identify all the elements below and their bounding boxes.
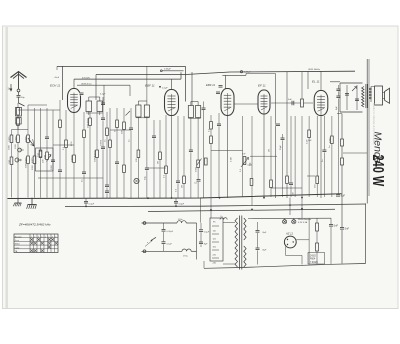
label component values [9, 106, 338, 196]
capacitor mains filter c [199, 223, 210, 247]
wire bottom power line [204, 261, 366, 268]
svg-text:5nF: 5nF [345, 227, 350, 231]
wire right column x331.9 [329, 116, 333, 197]
capacitor x278 [276, 124, 281, 127]
IF transformer T2 box b [144, 105, 149, 117]
wire mid column x166 [165, 115, 168, 198]
transformer output primary [362, 87, 364, 108]
wire left column x28 [25, 105, 29, 198]
capacitor mains filter d [199, 242, 208, 246]
svg-text:F604: F604 [310, 259, 316, 261]
choke mains top [177, 221, 197, 223]
wire shield box right [185, 66, 187, 101]
switch antenna band [19, 103, 25, 106]
svg-text:0,01µF: 0,01µF [167, 231, 174, 233]
capacitor antenna 50pF [17, 92, 26, 103]
svg-text:Bereich: Bereich [15, 236, 22, 238]
wire page fold line [6, 27, 7, 308]
wire selector stub [200, 198, 202, 223]
svg-text:20000: 20000 [71, 155, 74, 162]
label Mende logo [372, 132, 384, 164]
wire left column x74 [71, 113, 75, 198]
wire rectifier drop [290, 198, 309, 265]
wire right column x295.1 [294, 116, 296, 197]
svg-text:1: 1 [45, 236, 46, 238]
capacitor 8uF a [255, 222, 267, 265]
wire mid column x154 [152, 120, 157, 198]
transformer mains primary [235, 218, 238, 267]
IF transformer T3 box b [196, 106, 201, 118]
capacitor x342 c [340, 227, 350, 231]
wire V2 anode drop [171, 116, 173, 199]
wire right column x252 [251, 116, 253, 206]
label line b [81, 82, 93, 85]
resistor heater a [316, 223, 319, 231]
capacitor mains filter a [161, 223, 174, 251]
svg-text:8µF: 8µF [263, 250, 267, 252]
svg-text:3000: 3000 [25, 157, 28, 163]
svg-text:ECH: ECH [71, 141, 73, 146]
switch diagonal mid [126, 111, 131, 116]
svg-text:5000: 5000 [196, 166, 198, 172]
wire HT drop x192 [191, 72, 193, 105]
capacitor variable tone [352, 87, 357, 92]
wire right column x291 [289, 116, 294, 197]
wire mid link y168 [147, 167, 166, 169]
wire V4 drop [263, 114, 265, 198]
label AZ 11 [285, 232, 293, 236]
node terminal 1a [8, 84, 12, 91]
wire left column x11.5 [8, 130, 12, 198]
lamp pilot 2 [292, 219, 296, 224]
capacitor grid V3 [216, 85, 223, 94]
svg-text:50µF: 50µF [280, 144, 282, 150]
label entf [54, 76, 60, 79]
wire ground bus main [8, 194, 342, 199]
tube V4 EF11 [258, 90, 270, 114]
svg-text:+ Entf: + Entf [54, 76, 60, 79]
capacitor IFT3 trim [202, 102, 206, 199]
wire left link y129 [12, 124, 29, 130]
wire mid column x178 [176, 116, 181, 198]
svg-text:5000: 5000 [51, 164, 53, 170]
wire right column x338.4 [336, 85, 341, 197]
svg-text:1M: 1M [269, 149, 271, 152]
wire V3 to V4 [235, 103, 258, 105]
wire screen bus [74, 78, 181, 80]
wire speaker return [337, 114, 367, 153]
IF transformer T1 box b [97, 101, 103, 112]
label choke bottom [183, 256, 188, 258]
wire IFT3 bottom [188, 117, 200, 119]
wire left column x47 [44, 108, 49, 198]
wire x317 [316, 219, 318, 265]
wire pot top link [250, 155, 277, 157]
svg-text:0,05µF: 0,05µF [244, 72, 252, 74]
wire left column x103 [101, 105, 106, 198]
IF transformer T3 box a [188, 106, 193, 118]
wire V5 drop [320, 116, 322, 199]
box oscillator coil [36, 148, 54, 171]
svg-text:EBF 11: EBF 11 [145, 84, 155, 88]
wire drop x225 [224, 75, 226, 89]
wire right column x211 [210, 115, 213, 197]
label EL 11 [312, 80, 320, 84]
svg-text:2000: 2000 [25, 136, 28, 142]
resistor x342 a [341, 139, 344, 146]
capacitor 0.1uF grid V2 [159, 86, 168, 89]
transformer output secondary [370, 87, 372, 103]
svg-text:0,05µF: 0,05µF [164, 68, 172, 70]
resistor x342 b [341, 158, 344, 165]
wire mid column x110 [109, 108, 112, 198]
svg-text:EF 11: EF 11 [258, 84, 266, 88]
wire right column x302 [301, 116, 303, 206]
label EF 11 [258, 84, 266, 88]
label choke top [178, 219, 183, 221]
svg-text:0,5µF: 0,5µF [179, 204, 185, 206]
choke mains bottom [182, 249, 197, 251]
potentiometer volume [241, 154, 252, 168]
wire left column x40.5 [37, 108, 41, 198]
wire mid column x117 [115, 108, 120, 198]
wire mains right vertical [196, 223, 198, 260]
node bus junctions [85, 197, 303, 211]
resistor in osc box [39, 151, 41, 157]
wire left column x90 [87, 112, 91, 198]
ground symbol main [27, 198, 37, 209]
node mains terminal a [143, 222, 146, 253]
ground symbol left [13, 198, 21, 207]
capacitor IFT1 trim [100, 94, 106, 105]
wire speaker feed [371, 86, 375, 88]
wire left column x107 [105, 112, 110, 198]
label tube V3 [206, 83, 216, 87]
capacitor variable osc [47, 155, 52, 162]
table wave band [14, 234, 58, 253]
transformer mains secondary b [244, 246, 246, 267]
wire output bottom [340, 111, 363, 113]
coil L1 antenna [16, 108, 22, 117]
svg-text:6000: 6000 [31, 157, 34, 163]
wire mid column x184 [183, 116, 186, 198]
capacitor 50pF V1 top [79, 93, 84, 96]
tube V1 ECH11 [68, 79, 81, 112]
wire IFT2 bottom [136, 117, 150, 119]
circle trimmer [15, 148, 24, 162]
wire lamp line [248, 217, 331, 219]
svg-text:Mittel: Mittel [15, 243, 20, 246]
wire drop x287 [286, 72, 288, 198]
wire shield box left [57, 66, 63, 100]
wire top to EL11 [302, 71, 308, 99]
tube V2 EBF11 [165, 79, 179, 115]
svg-text:2: 2 [34, 236, 35, 238]
label ZF frequency [18, 223, 51, 227]
svg-text:Kurz: Kurz [15, 240, 19, 242]
wire right link y188 [271, 187, 302, 189]
wire IFT1 bottom [86, 112, 103, 116]
transformer output core [366, 84, 368, 108]
svg-text:0,5µF: 0,5µF [204, 231, 210, 233]
wire output top [330, 82, 363, 112]
transformer mains secondary a [244, 218, 246, 240]
svg-text:EL 11: EL 11 [312, 80, 320, 84]
svg-text:1000: 1000 [15, 136, 18, 142]
wire IFT2 top [138, 101, 147, 105]
speaker [375, 86, 390, 105]
svg-text:0,3M: 0,3M [231, 157, 233, 162]
resistor V4 grid leak [286, 176, 289, 184]
tube V5 EL11 [314, 71, 328, 115]
wire left link y110 [18, 109, 60, 111]
wire mid column x146.9 [145, 117, 150, 198]
wire mid column x198.1 [197, 118, 200, 199]
svg-text:4: 4 [55, 236, 56, 238]
svg-text:4: 4 [41, 236, 42, 238]
svg-text:243/2: 243/2 [310, 255, 316, 257]
label F6 [213, 222, 216, 224]
label part number block [308, 253, 325, 265]
wire selector to transformer [223, 223, 235, 265]
svg-text:1: 1 [31, 236, 32, 238]
svg-text:Lang: Lang [15, 247, 19, 249]
label 0.05uF top [244, 72, 252, 74]
wire right column x309.1 [308, 116, 311, 197]
wire left column x97 [94, 112, 98, 198]
node antenna terminal [17, 89, 20, 92]
wire mid column x124 [123, 108, 126, 198]
svg-text:6000: 6000 [32, 164, 34, 170]
resistor heater b [316, 243, 319, 251]
wire mains line top [142, 222, 178, 224]
svg-text:1000: 1000 [9, 144, 11, 150]
wire IFT1 top [89, 97, 100, 101]
label EBF 11 [145, 84, 155, 88]
switch mains [147, 237, 156, 244]
svg-text:1000: 1000 [15, 143, 17, 149]
wire left link y145 [53, 144, 74, 146]
wire left link y105 [28, 104, 47, 106]
wire bus C [148, 209, 335, 211]
svg-text:0,1µF: 0,1µF [89, 204, 95, 206]
wire screen bus jog [180, 72, 182, 79]
transformer mains core [240, 216, 242, 270]
label taps [213, 231, 217, 265]
wire left column x84 [82, 112, 87, 198]
wire drop x278 [275, 74, 277, 199]
svg-text:7.004/4: 7.004/4 [310, 262, 318, 264]
label 0.1uF cluster [306, 140, 312, 142]
tube V6 AZ11 rectifier [284, 236, 309, 264]
wire IFT2 feed [146, 66, 148, 101]
capacitor 8uF right top [336, 194, 346, 198]
svg-text:UKW 40kHz: UKW 40kHz [308, 69, 320, 71]
wire margin divider [366, 59, 370, 264]
capacitor 8uF b [255, 248, 267, 252]
wire 0.05uF line left [160, 70, 183, 72]
svg-text:5nF: 5nF [334, 224, 339, 228]
svg-text:8µF: 8µF [341, 194, 346, 198]
wire left column x66 [65, 110, 68, 198]
voltage selector box [210, 218, 223, 261]
svg-text:2M: 2M [158, 161, 160, 164]
wire IFT3 top [191, 102, 198, 106]
wire mid column x138.4 [137, 117, 140, 198]
voltage selector taps [212, 226, 219, 258]
wire right column x242.5 [242, 116, 244, 197]
svg-text:8µF: 8µF [263, 232, 267, 234]
wire left column x60 [58, 100, 63, 198]
wire left column x34.5 [31, 108, 35, 198]
wire second top line [222, 74, 275, 76]
label margin faint [372, 103, 376, 145]
wire right column x219 [217, 113, 222, 197]
wire V3 cathode drop [227, 116, 229, 199]
capacitor 0.5uF bus [174, 198, 185, 206]
wire right column x317.2 [316, 116, 319, 197]
svg-text:1000: 1000 [8, 136, 11, 142]
IF transformer T1 box a [86, 101, 92, 112]
wire left link y178 [38, 177, 103, 179]
svg-text:UKW-Kreis: UKW-Kreis [81, 82, 93, 85]
svg-text:10000: 10000 [101, 139, 103, 146]
svg-text:Cw: Cw [194, 183, 198, 185]
svg-text:150: 150 [8, 159, 11, 164]
wire right column x282.5 [280, 134, 285, 197]
lamp pilot 1 [283, 219, 287, 224]
label Skalenlampen [298, 219, 312, 224]
svg-text:ZF=468/472,5/482 kHz: ZF=468/472,5/482 kHz [18, 223, 51, 227]
capacitor mains filter b [161, 241, 172, 245]
coil L2 antenna [16, 118, 21, 125]
choke selector top [220, 216, 227, 220]
resistor det load [250, 179, 253, 186]
svg-text:2: 2 [48, 236, 49, 238]
capacitor right bottom [329, 218, 339, 264]
wire right link y150 [211, 151, 243, 218]
svg-text:30000: 30000 [94, 150, 97, 157]
svg-text:470-kHz: 470-kHz [82, 77, 90, 79]
wire mid column x131 [129, 108, 134, 198]
antenna [11, 72, 27, 90]
wire mid column x160 [159, 120, 162, 198]
svg-text:6,3V 0,3A: 6,3V 0,3A [298, 221, 308, 224]
svg-text:240 W: 240 W [370, 155, 387, 187]
label 240W [370, 155, 387, 187]
wire right link y176 [307, 175, 315, 177]
svg-text:0,1µF: 0,1µF [100, 94, 106, 96]
svg-text:EBF 11: EBF 11 [206, 83, 216, 87]
svg-text:Skalenlampen: Skalenlampen [298, 219, 312, 221]
switch tone [197, 158, 207, 165]
label line a [82, 77, 90, 79]
wire mains line bottom [142, 250, 183, 252]
svg-text:ECH 11: ECH 11 [50, 84, 61, 88]
wire mid column x190.9 [189, 118, 194, 199]
svg-text:3000: 3000 [26, 162, 28, 168]
svg-text:0,1µF: 0,1µF [162, 87, 168, 89]
wire mid link y130 [110, 129, 131, 131]
wire osc line [77, 85, 130, 105]
capacitor output a [345, 85, 349, 110]
label heater top right [240, 69, 320, 73]
IF transformer T2 box a [136, 105, 141, 117]
wire label pointer [145, 242, 151, 247]
svg-text:3: 3 [52, 236, 53, 238]
capacitor output b [355, 85, 359, 110]
wire bus B [65, 204, 366, 207]
svg-text:30000: 30000 [95, 155, 97, 162]
svg-text:0,1µF: 0,1µF [167, 243, 173, 245]
wire left column x53 [51, 110, 56, 198]
wire right column x271 [270, 116, 273, 197]
wire right column x324.4 [322, 116, 327, 197]
tube V3 EBF11 [221, 89, 234, 116]
lamp dial [134, 178, 139, 183]
svg-text:AZ 11: AZ 11 [285, 232, 293, 236]
capacitor 0.1uF bus [84, 198, 95, 206]
wire shield box top [57, 65, 186, 67]
wire shield box inner top [96, 75, 186, 101]
capacitor 5nF coupling [271, 99, 313, 107]
capacitor Cw [194, 179, 201, 184]
svg-text:5nF: 5nF [288, 99, 292, 101]
wire HT top bus [186, 71, 356, 74]
svg-text:0,3M: 0,3M [329, 138, 332, 143]
svg-text:200: 200 [44, 154, 47, 159]
svg-text:1M: 1M [182, 185, 184, 188]
capacitor variable tuning 1 [28, 138, 34, 146]
wire left column x18 [15, 103, 19, 198]
svg-text:3: 3 [38, 236, 39, 238]
svg-text:8µF: 8µF [336, 106, 338, 110]
label ECH 11 [50, 84, 61, 88]
label 0.05uF left [164, 68, 172, 70]
wire right column x342 [341, 114, 343, 264]
